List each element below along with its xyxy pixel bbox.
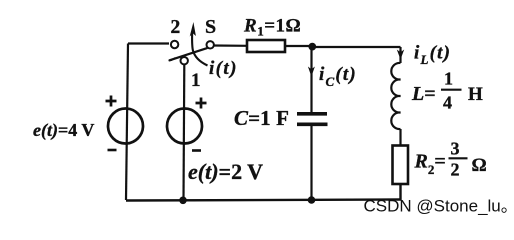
voltage source e(t)=4V xyxy=(108,109,143,144)
svg-text:R1=1Ω: R1=1Ω xyxy=(243,16,301,39)
svg-text:2: 2 xyxy=(451,160,460,180)
svg-text:e(t)=2 V: e(t)=2 V xyxy=(188,159,263,184)
wire switch pole 1 through 2V source to bottom node xyxy=(182,64,185,200)
wire inductor to R2 xyxy=(399,129,401,146)
svg-text:iL(t): iL(t) xyxy=(414,43,451,68)
svg-text:i(t): i(t) xyxy=(209,58,238,79)
resistor R1 xyxy=(247,40,285,52)
wire top-left horizontal xyxy=(128,42,169,44)
current arrow iC xyxy=(308,67,315,77)
svg-text:3: 3 xyxy=(451,139,460,159)
svg-text:2: 2 xyxy=(171,17,181,38)
label i(t) xyxy=(209,58,238,79)
wire S to R1 xyxy=(214,44,247,46)
node junction dot bottom under capacitor xyxy=(308,196,316,204)
capacitor C plates xyxy=(297,114,328,125)
polarity - of 2V source xyxy=(192,149,201,152)
wire bottom horizontal xyxy=(126,200,402,201)
resistor R2 xyxy=(393,146,409,185)
svg-text:S: S xyxy=(205,16,216,38)
svg-text:e(t)=4 V: e(t)=4 V xyxy=(33,120,94,141)
wire arrow to inductor top xyxy=(399,56,401,63)
switch terminal 2 contact xyxy=(171,41,178,48)
polarity + of 2V source xyxy=(196,98,207,109)
label e(t)=4 V xyxy=(33,120,94,141)
switch terminal S contact xyxy=(207,41,214,48)
svg-text:iC(t): iC(t) xyxy=(319,64,357,89)
label L = 1/4 H xyxy=(411,69,483,113)
label C=1 F xyxy=(234,106,289,130)
svg-text:L=: L= xyxy=(411,83,436,105)
label S xyxy=(205,16,216,38)
svg-text:1: 1 xyxy=(444,69,453,89)
svg-text:C=1 F: C=1 F xyxy=(234,106,289,130)
label R1=1 ohm xyxy=(243,16,301,39)
wire capacitor to bottom node xyxy=(310,126,312,201)
wire left vertical xyxy=(126,44,128,201)
svg-text:H: H xyxy=(468,84,483,105)
label iC(t) xyxy=(319,64,357,89)
polarity + of 4V source xyxy=(106,96,117,107)
svg-text:1: 1 xyxy=(191,70,201,91)
switch motion arrow xyxy=(190,22,208,66)
voltage source e(t)=2V xyxy=(167,109,202,144)
node junction dot top xyxy=(308,43,316,51)
wire R2 to bottom xyxy=(399,184,401,201)
svg-text:R2=: R2= xyxy=(414,151,446,178)
current arrow iL xyxy=(397,50,404,60)
svg-text:CSDN @Stone_lu。: CSDN @Stone_lu。 xyxy=(364,197,514,216)
label 1 xyxy=(191,70,201,91)
watermark CSDN xyxy=(364,197,514,216)
wire R1 to top node xyxy=(285,45,309,47)
label iL(t) xyxy=(414,43,451,68)
switch terminal 1 contact xyxy=(181,57,188,64)
label e(t)=2 V xyxy=(188,159,263,184)
svg-text:4: 4 xyxy=(443,93,452,113)
wire top node to inductor corner xyxy=(315,47,401,52)
label R2 = 3/2 ohm xyxy=(414,139,487,180)
node junction dot bottom under 2V source xyxy=(179,197,187,205)
inductor L xyxy=(391,63,400,129)
wire top node down to capacitor xyxy=(310,50,312,112)
svg-text:Ω: Ω xyxy=(472,155,487,176)
label 2 xyxy=(171,17,181,38)
polarity - of 4V source xyxy=(108,149,117,152)
switch blade xyxy=(169,48,207,61)
